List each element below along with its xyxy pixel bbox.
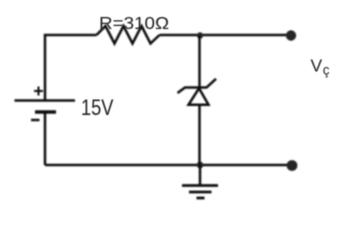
svg-text:R=310Ω: R=310Ω <box>99 13 169 33</box>
wire top (resistor to output node and terminal) <box>160 34 289 37</box>
wire bottom <box>45 164 288 167</box>
wire top-left vertical (battery + to resistor) <box>45 35 97 100</box>
svg-text:15V: 15V <box>81 95 114 120</box>
wire zener branch upper <box>198 35 201 88</box>
zener diode D1 triangle <box>189 88 209 105</box>
battery V1 positive plate <box>15 99 76 102</box>
ground bar 2 <box>189 191 212 194</box>
resistor R1 zigzag <box>97 26 160 44</box>
ground bar 1 <box>182 184 218 187</box>
wire zener branch lower <box>198 105 201 165</box>
ground junction dot <box>197 162 204 169</box>
terminal dot bottom right <box>287 160 298 171</box>
svg-text:Vç: Vç <box>311 56 330 78</box>
node A junction dot (top of zener) <box>197 32 203 38</box>
battery V1 negative plate <box>35 110 56 114</box>
battery minus sign <box>31 119 40 121</box>
wire battery negative to bottom <box>44 114 47 166</box>
zener diode D1 cathode bar with bent ends <box>178 79 217 93</box>
battery plus sign <box>34 87 43 96</box>
terminal dot top right <box>286 30 296 40</box>
ground bar 3 <box>197 197 205 200</box>
ground stem <box>199 165 202 185</box>
